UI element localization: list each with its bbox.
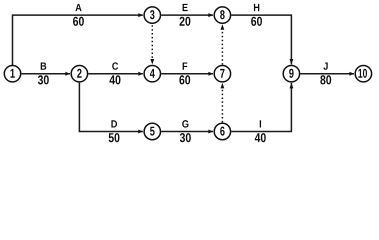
value 40 of I <box>255 133 266 142</box>
arrowhead I at node 9 bottom <box>290 83 294 89</box>
value 20 of E <box>180 17 191 26</box>
node 9 <box>283 66 299 82</box>
value 60 of F <box>179 75 190 84</box>
label A <box>75 4 81 11</box>
label F <box>183 62 188 69</box>
arrowhead dummy at node 8 bottom <box>221 24 225 30</box>
activity-on-arrow network diagram <box>0 0 379 149</box>
node 10 <box>355 66 371 82</box>
wire activity I elbow from node 6 right then up to node 9 <box>231 83 291 132</box>
node 4 <box>144 66 160 82</box>
arrowhead C at node 4 <box>138 72 143 76</box>
wire activity B from node 1 to node 2 <box>21 73 70 75</box>
wire activity H elbow from node 8 right then down to node 9 <box>231 15 291 64</box>
arrowhead F at node 7 <box>208 72 213 76</box>
wire activity A elbow from node 1 up then right to node 3 <box>13 15 143 65</box>
label B <box>41 62 47 69</box>
dummy activity dotted arrow from node 3 down to node 4 <box>151 25 153 59</box>
dummy activity dotted arrow from node 6 up to node 7 <box>221 89 223 123</box>
node 2 <box>71 66 87 82</box>
value 30 of G <box>180 133 191 142</box>
arrowhead dummy at node 7 bottom <box>221 83 225 89</box>
arrowhead E at node 8 <box>208 13 213 17</box>
arrowhead D at node 5 <box>138 130 143 134</box>
arrowhead G at node 6 <box>208 130 213 134</box>
wire activity G from node 5 to node 6 <box>161 131 213 133</box>
arrowhead J at node 10 <box>349 72 354 76</box>
value 60 of H <box>251 17 262 26</box>
node 3 <box>144 7 160 23</box>
label H <box>254 4 259 11</box>
arrowhead B at node 2 <box>65 72 70 76</box>
value 30 of B <box>38 75 49 84</box>
label G <box>182 120 188 127</box>
label E <box>183 4 188 11</box>
label I <box>260 120 261 127</box>
arrowhead H at node 9 top <box>290 59 294 65</box>
wire activity J from node 9 to node 10 <box>300 73 354 75</box>
value 80 of J <box>320 75 331 84</box>
wire activity D elbow from node 2 down then right to node 5 <box>79 83 142 132</box>
value 50 of D <box>109 133 120 142</box>
node 1 <box>4 66 20 82</box>
wire activity E from node 3 to node 8 <box>161 14 213 16</box>
wire activity C from node 2 to node 4 <box>88 73 143 75</box>
wire activity F from node 4 to node 7 <box>161 73 213 75</box>
value 40 of C <box>109 75 120 84</box>
node 8 <box>214 7 230 23</box>
arrowhead A at node 3 <box>138 13 143 17</box>
node 6 <box>214 123 230 139</box>
arrowhead dummy at node 4 top <box>150 59 154 65</box>
label D <box>111 120 117 127</box>
node 7 <box>214 66 230 82</box>
value 60 of A <box>73 17 84 26</box>
dummy activity dotted arrow from node 7 up to node 8 <box>221 30 223 65</box>
label C <box>112 62 118 69</box>
label J <box>323 62 327 69</box>
node 5 <box>144 123 160 139</box>
